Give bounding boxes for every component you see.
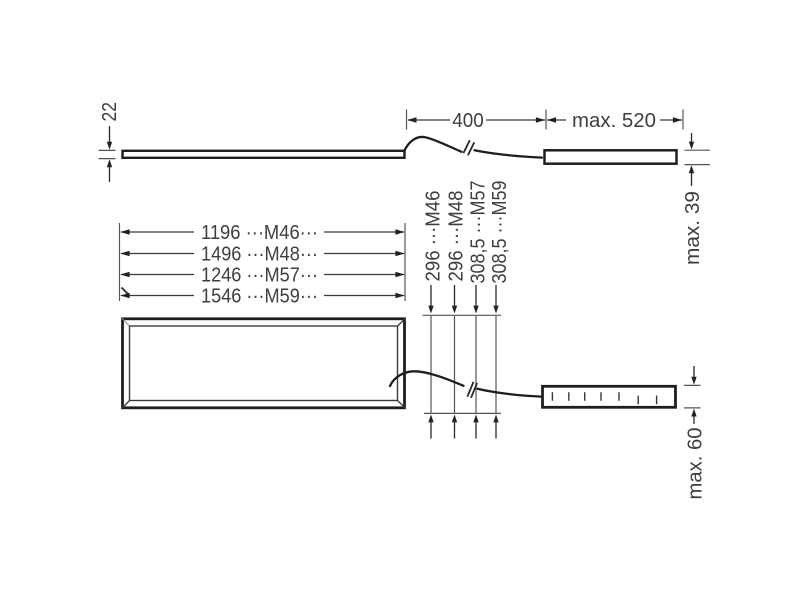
dimension 308,5 M59 arrow [493,285,498,314]
svg-text:max. 520: max. 520 [572,109,656,132]
width dims vertical extension lines [431,316,496,413]
dimension max39 label [681,191,704,265]
width dims top extension line [423,314,502,316]
dimension 400 line left with arrow [407,117,450,122]
dimension max60 tick top [684,384,701,386]
svg-text:296 ···M46: 296 ···M46 [422,191,445,282]
dimension max39 arrow up [689,165,694,186]
dimension 1546 M59 slash mark [122,288,130,296]
dimension 296 M46 arrow [428,285,433,314]
svg-text:308,5 ···M57: 308,5 ···M57 [467,181,490,284]
dimension 400 label [452,109,484,132]
dimension max39 tick bottom [685,164,711,166]
driver box terminal ticks [552,392,656,404]
dimension 400 tick right [682,110,684,130]
dimension 22 label [98,102,121,122]
dimension 22 arrow down [107,126,112,150]
dimension 1196 M46 label [201,221,318,244]
dimension 22 tick top [99,149,116,151]
cable top view segment 2 [478,389,542,397]
dimension 296 M46 label [422,191,445,282]
dimension 308,5 M57 arrow [473,285,478,314]
svg-text:max. 39: max. 39 [681,191,704,265]
dimension 1546 M59 label [201,284,318,307]
driver box side view [545,150,677,163]
dimension max520 line right with arrow [660,117,682,122]
dimension 1246 M57 line [120,272,404,277]
cable side view segment 1 [404,137,462,152]
length dims left extension line [119,223,121,301]
svg-text:1546 ···M59···: 1546 ···M59··· [201,284,318,307]
dimension max60 label [684,428,707,500]
panel top view corner bevels [122,318,406,408]
dimension 1496 M48 line [120,251,404,256]
dimension max60 arrow up [691,409,696,424]
dimension max520 line left with arrow [547,117,566,122]
driver box top view [543,386,676,407]
svg-text:400: 400 [452,109,484,132]
dimension 1496 M48 label [201,242,318,265]
svg-text:296 ···M48: 296 ···M48 [445,191,468,282]
cable side view segment 2 [475,150,543,157]
dimension 400 line right with arrow [486,117,545,122]
dimension 308,5 M59 label [488,181,511,284]
dimension 22 tick bottom [99,158,116,160]
width dims up arrows [428,415,498,439]
svg-text:max. 60: max. 60 [684,428,707,500]
dimension 22 arrow up [107,159,112,182]
dimension 1546 M59 line [120,293,404,298]
svg-text:22: 22 [98,102,121,122]
dimension 1246 M57 label [201,263,318,286]
dimension max60 tick bottom [684,407,701,409]
cable top view break slashes [467,382,477,398]
panel top view inner rectangle [130,326,398,401]
panel top view outer rectangle [123,319,405,408]
dimension 296 M48 arrow [452,285,457,314]
dimension 296 M48 label [445,191,468,282]
dimension 400 tick middle [545,110,547,130]
cable top view segment 1 [390,371,464,386]
dimension max39 arrow down [689,133,694,150]
dimension max39 tick top [685,149,711,151]
svg-text:1246 ···M57···: 1246 ···M57··· [201,263,318,286]
panel side view bar [123,151,405,158]
dimension 1196 M46 line [120,229,404,234]
dimension 400 tick left [406,110,408,130]
svg-text:1196 ···M46···: 1196 ···M46··· [201,221,318,244]
svg-text:308,5 ···M59: 308,5 ···M59 [488,181,511,284]
svg-text:1496 ···M48···: 1496 ···M48··· [201,242,318,265]
cable side view break slashes [463,140,474,155]
length dims right extension line [404,223,406,301]
width dims bottom extension line [424,412,501,414]
dimension max520 label [572,109,656,132]
dimension max60 arrow down [691,366,696,385]
dimension 308,5 M57 label [467,181,490,284]
